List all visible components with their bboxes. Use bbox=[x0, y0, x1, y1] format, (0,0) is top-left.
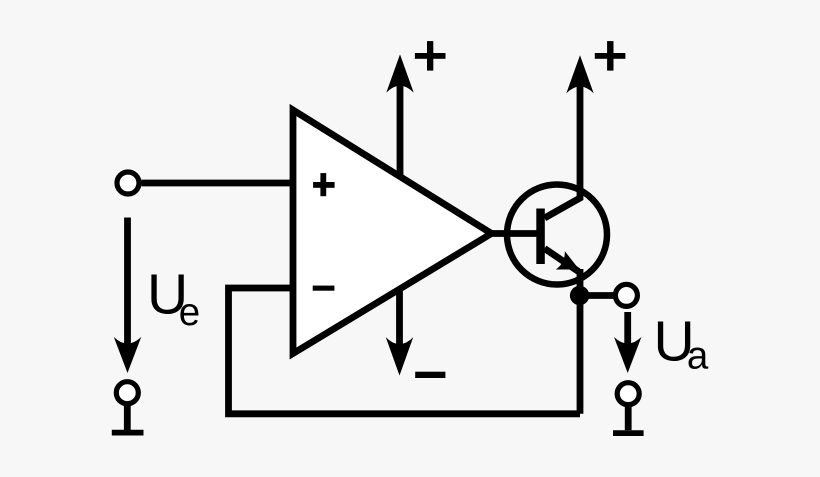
op-amp + input label bbox=[313, 173, 335, 196]
input terminal (left, circle) bbox=[117, 172, 139, 194]
output ground terminal bbox=[613, 383, 644, 433]
wire: input terminal to op-amp + input bbox=[142, 180, 297, 187]
Ue arrow (input voltage, down) bbox=[114, 218, 141, 374]
Q1 base bar bbox=[536, 209, 545, 265]
Ua label bbox=[654, 310, 709, 378]
Q1 emitter lead bbox=[545, 249, 579, 272]
svg-text:e: e bbox=[179, 291, 200, 334]
Ue label bbox=[147, 263, 200, 335]
arrowhead: collector supply (up) bbox=[566, 55, 593, 93]
Ua arrow (output voltage, down) bbox=[614, 312, 641, 373]
+ label (collector supply) bbox=[595, 41, 626, 71]
wire: feedback loop (output to - input) bbox=[229, 288, 581, 414]
wire: op-amp negative supply pin bbox=[396, 288, 403, 352]
op-amp U1 (triangle) bbox=[293, 110, 492, 354]
arrowhead: positive supply (up) bbox=[386, 54, 413, 92]
output terminal (circle) bbox=[615, 284, 637, 306]
op-amp - input label bbox=[313, 286, 335, 291]
transistor Q1 body (circle) bbox=[507, 185, 607, 285]
wire: op-amp positive supply pin bbox=[397, 72, 404, 177]
input ground terminal bbox=[112, 382, 144, 433]
arrowhead: emitter (down-right) bbox=[556, 251, 584, 279]
Q1 collector lead bbox=[545, 72, 581, 218]
- label (op-amp negative supply) bbox=[415, 372, 445, 378]
+ label (op-amp positive supply) bbox=[415, 41, 446, 71]
svg-text:a: a bbox=[687, 335, 709, 378]
arrowhead: negative supply (down) bbox=[386, 337, 413, 375]
wire: emitter down to bottom rail bbox=[577, 269, 584, 414]
node: output junction dot bbox=[570, 286, 589, 305]
wire: node to output terminal bbox=[580, 292, 614, 299]
wire: op-amp output to Q1 base bbox=[492, 230, 539, 237]
